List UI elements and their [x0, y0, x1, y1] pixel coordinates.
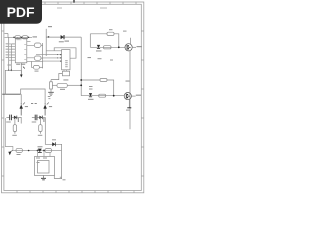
capacitor C5: [6, 115, 14, 123]
node C junction: [118, 46, 120, 48]
wire gate2: [81, 95, 124, 97]
optocoupler box U3: [35, 157, 55, 176]
node B junction: [80, 84, 82, 86]
node E junction: [37, 150, 39, 152]
optocoupler pins: [38, 151, 50, 157]
net label bottom: [63, 179, 66, 180]
resistor R8 value: [12, 135, 16, 136]
IC U2 pin numbers: [65, 60, 68, 67]
wire top rail: [46, 36, 81, 38]
wire driver row jog: [21, 89, 45, 103]
capacitor C1: [34, 43, 42, 47]
ground GND1: [48, 92, 54, 95]
wire bottom rail left: [5, 118, 13, 150]
node A junction: [48, 36, 50, 38]
resistor R7: [99, 94, 106, 97]
wire driver1 drop: [20, 94, 22, 103]
IC U2 top loop wire: [54, 48, 76, 58]
IC U1 pin labels: [6, 39, 27, 60]
ground GND2 label: [126, 110, 130, 111]
capacitor C3: [31, 61, 42, 71]
net label R15: [89, 86, 93, 87]
dash note between drivers: [31, 103, 37, 105]
sheet zone ticks bottom: [17, 191, 134, 193]
capacitor C7: [16, 148, 22, 152]
wire source1 to drain2: [129, 51, 131, 130]
wire top rail left vertical: [45, 29, 47, 56]
wire feedback drop: [45, 117, 61, 150]
sheet zone ticks left: [2, 31, 4, 176]
wire cap bus vertical: [42, 43, 44, 68]
resistor R4 label: [109, 29, 113, 30]
sheet header note 1: [57, 8, 62, 9]
resistor R4 top gate: [90, 32, 119, 47]
wire mosfet1 tab: [132, 46, 136, 48]
diode D6: [52, 139, 56, 146]
diode D4 small: [14, 116, 17, 120]
wire mosfet2 tab: [131, 95, 135, 97]
wire IC U1 bottom loop: [5, 63, 21, 94]
diode D2: [96, 45, 102, 52]
wire box right loop: [54, 151, 61, 179]
resistor R16 label: [63, 79, 68, 80]
diode D7 arrow: [8, 150, 13, 155]
capacitor C7 label: [17, 154, 21, 155]
net label small: [110, 60, 113, 61]
node bus junction: [11, 70, 13, 72]
IC U1 bottom labels: [16, 64, 25, 65]
wire drain1: [130, 38, 132, 45]
wire group2: [42, 116, 45, 118]
resistor R6 high: [81, 79, 114, 96]
diode D3: [88, 93, 94, 100]
transistor T1 label: [25, 106, 28, 107]
resistor R5: [104, 46, 112, 49]
capacitor C2: [34, 56, 42, 60]
resistor R9 vertical: [39, 117, 45, 133]
net label D5: [88, 57, 92, 58]
sheet zone ticks top: [45, 2, 136, 5]
switch S1: [22, 36, 28, 39]
node B2 junction: [80, 79, 82, 81]
diode D1: [59, 35, 64, 42]
ground GND2: [127, 107, 131, 109]
svg-text:PDF: PDF: [7, 4, 35, 20]
ground GND3: [41, 176, 46, 180]
transistor Q2 label: [136, 95, 142, 96]
IC U1 top pins: [17, 37, 21, 38]
sheet zone tick dark: [73, 0, 75, 3]
wire source2: [128, 100, 130, 108]
capacitor C8: [45, 148, 52, 152]
sheet outer border: [2, 2, 144, 193]
sheet header note 2: [100, 8, 107, 9]
wire upper-left row: [5, 34, 33, 38]
node E0 junction: [28, 150, 30, 152]
IC U2 body: [62, 50, 70, 76]
diode D5 small: [39, 116, 42, 120]
IC U2 pin junction dots: [57, 54, 61, 62]
transistor Q1 label: [137, 46, 143, 47]
net label row: [33, 36, 38, 37]
wire rail drop right: [80, 37, 82, 96]
transistor Q1 mosfet: [125, 44, 132, 51]
IC U1 right pins: [27, 42, 43, 62]
pdf badge: [0, 0, 42, 24]
wire box bottom stub: [53, 176, 55, 179]
wire node bus to driver row: [2, 93, 21, 95]
net label +12V: [48, 26, 52, 27]
sheet inner border: [4, 4, 141, 190]
sheet zone ticks right: [141, 31, 144, 176]
IC U1 left pins: [9, 44, 16, 60]
node D junction: [113, 95, 115, 97]
inductor L1 value: [60, 89, 65, 90]
node F junction: [43, 150, 45, 152]
note marks near T2: [48, 96, 51, 97]
resistor R9 value: [38, 135, 43, 136]
IC U2 bottom pins: [64, 70, 67, 71]
transistor T2 label: [49, 106, 52, 107]
transistor T1 driver: [20, 103, 25, 116]
transistor T2 driver: [44, 103, 49, 116]
diode D8: [38, 146, 43, 152]
transistor Q2 note above: [126, 81, 130, 82]
wire bottom rail: [13, 149, 62, 151]
optocoupler labels: [36, 158, 47, 164]
IC U2 left pins: [36, 51, 62, 61]
ground arrow G1: [20, 67, 25, 78]
transistor Q2 mosfet: [124, 93, 131, 100]
capacitor C6: [32, 115, 40, 123]
IC U1 body: [15, 38, 26, 63]
IC U2 bottom loop: [51, 74, 62, 80]
wire group1: [17, 117, 21, 123]
wire gate1: [90, 46, 125, 48]
resistor R8 vertical: [13, 117, 19, 133]
transistor Q1 note: [123, 31, 127, 32]
IC U2 label above: [65, 41, 70, 42]
resistor R3 vertical: [50, 80, 53, 92]
inductor L1: [52, 83, 81, 87]
node row junctions: [13, 37, 29, 38]
wire left supply bus vertical: [9, 37, 12, 70]
fuse F1: [15, 36, 21, 39]
